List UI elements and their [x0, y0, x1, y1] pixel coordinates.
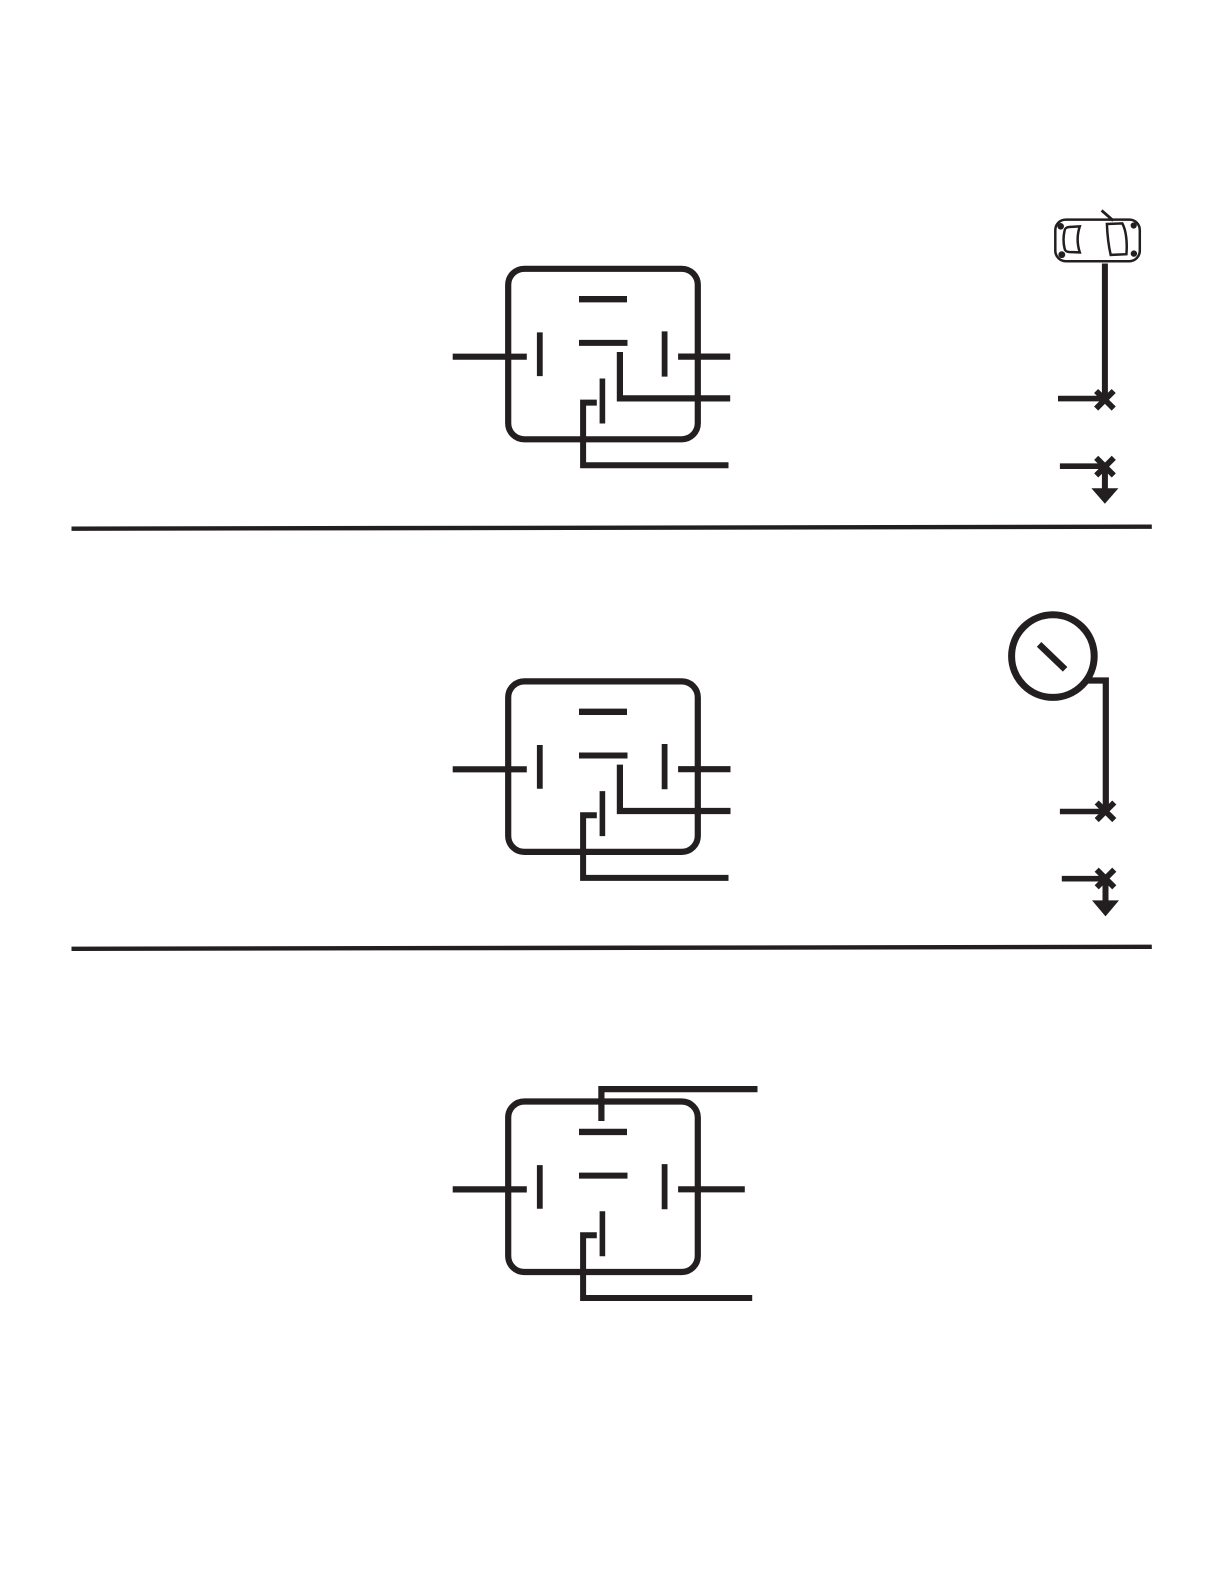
relay K2 pin blade top [579, 709, 627, 715]
relay K3 pin blade center [579, 1173, 628, 1179]
relay K3 pin blade bottom [600, 1211, 606, 1256]
wire: relay K3 bottom hook wire [583, 1235, 752, 1298]
relay K3 socket outline [508, 1102, 698, 1273]
gauge icon (test meter) [1012, 615, 1095, 698]
wire: relay K1 right lead [678, 354, 730, 360]
relay K3 pin blade left [537, 1165, 543, 1209]
relay K1 pin blade top [579, 296, 627, 302]
relay K1 pin blade center [579, 340, 628, 346]
ground arrow section 1 [1102, 467, 1108, 490]
wire: relay K1 bottom hook wire [583, 403, 728, 466]
wire: relay K2 center-to-right L wire [620, 765, 731, 811]
relay K2 pin blade left [537, 745, 543, 789]
wire: relay K2 left lead [453, 766, 527, 772]
wire: relay K3 left lead [453, 1186, 527, 1192]
wire: relay K1 left lead [453, 354, 527, 360]
wire: relay K3 top feed wire [601, 1089, 757, 1121]
wire: vehicle drop wire [1102, 264, 1108, 400]
ground arrow section 2 [1103, 879, 1109, 902]
wire: relay K3 right lead [678, 1186, 745, 1192]
wire: stub to splice X1 section 1 [1058, 396, 1105, 402]
relay K3 pin blade right [662, 1164, 668, 1209]
wire: relay K2 right lead [678, 766, 730, 772]
section separator rule 2 [72, 947, 1152, 949]
relay K1 pin blade left [537, 332, 543, 376]
wire: relay K2 bottom hook wire [583, 815, 728, 878]
relay K2 pin blade bottom [600, 791, 606, 836]
wire: stub to splice X2 section 2 [1062, 876, 1106, 882]
splice X1 section 2 [1097, 803, 1115, 821]
relay K3 pin blade top [579, 1129, 627, 1135]
gauge needle [1039, 644, 1065, 669]
relay K1 pin blade right [662, 331, 668, 376]
wire: gauge drop wire [1087, 681, 1106, 812]
relay K2 pin blade center [579, 753, 628, 759]
splice X2 section 2 [1097, 870, 1115, 888]
vehicle icon (car, top view) [1055, 210, 1140, 261]
relay K2 socket outline [508, 681, 698, 852]
wire: stub to splice X2 section 1 [1060, 463, 1105, 469]
splice X2 section 1 [1096, 458, 1114, 476]
relay K1 socket outline [508, 269, 698, 440]
splice X1 section 1 [1096, 391, 1114, 409]
relay K1 pin blade bottom [600, 379, 606, 424]
relay K2 pin blade right [662, 744, 668, 789]
wire: relay K1 center-to-right L wire [620, 352, 730, 398]
section separator rule 1 [72, 527, 1152, 529]
wire: stub to splice X1 section 2 [1060, 809, 1106, 815]
